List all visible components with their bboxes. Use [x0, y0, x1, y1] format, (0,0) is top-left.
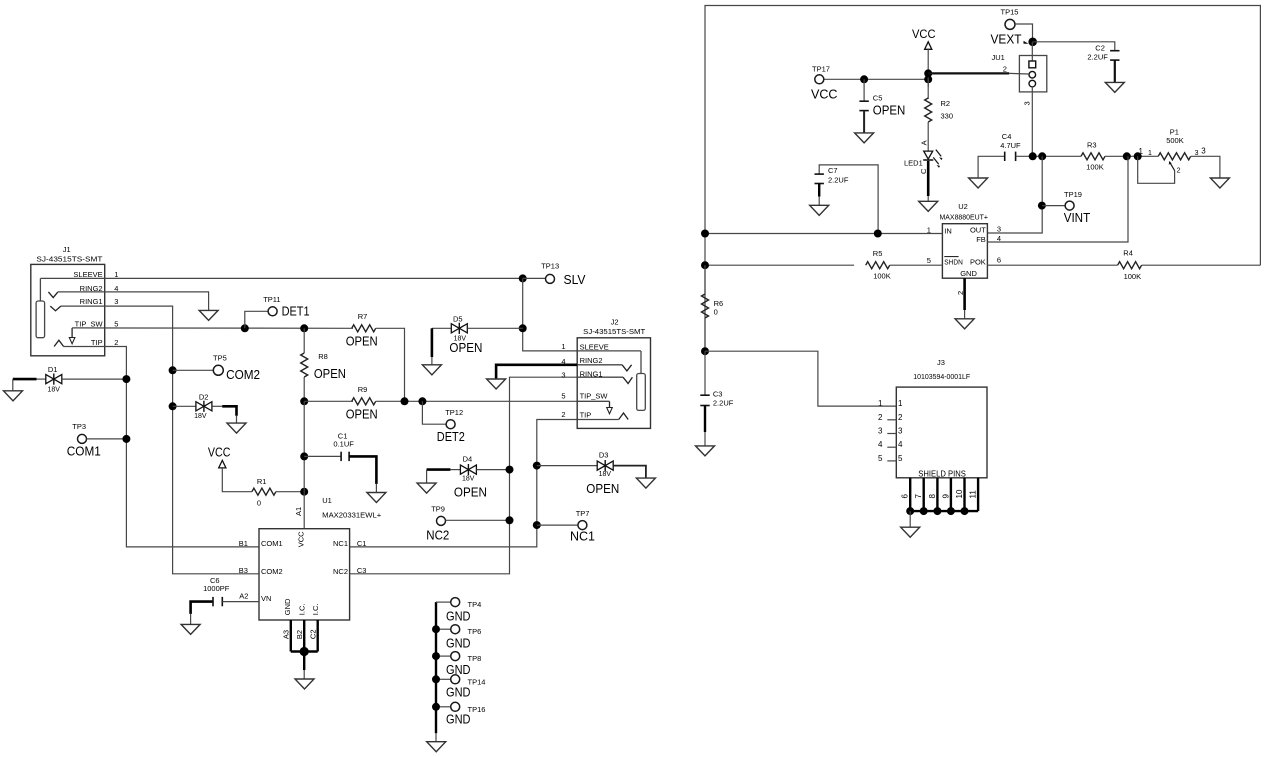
test point TP3 [67, 422, 101, 458]
svg-text:A1: A1 [294, 507, 303, 516]
ground below C7 [810, 205, 829, 215]
ground below D1 [4, 391, 23, 401]
ground below D5 left [422, 365, 441, 375]
junction D4 node [506, 466, 514, 474]
svg-text:VEXT: VEXT [991, 32, 1022, 47]
capacitor C2 [1087, 44, 1119, 62]
svg-text:I.C.: I.C. [311, 604, 320, 616]
wire JU1 pin3 down to C4 node [1031, 87, 1033, 156]
wire D5 to SLV node [467, 327, 522, 329]
wire C1 ground elbow [349, 456, 376, 484]
wire D5 ground drop [431, 328, 434, 357]
wire J2 RING2 to ground [496, 365, 577, 379]
junction JU1 pin3 node [1029, 152, 1037, 160]
wire J1 TIP_SW net [72, 327, 353, 329]
junction shield bus at 937.4 [933, 507, 941, 515]
junction TP7 node [533, 521, 541, 529]
diode D5 [449, 315, 482, 356]
J1 pin names [73, 270, 103, 347]
wire TP5 stub [173, 369, 214, 371]
U1 bottom pin stubs [281, 620, 317, 652]
wire R6 to C3 node [704, 318, 706, 351]
capacitor C6 [203, 576, 230, 606]
resistor R7 [346, 312, 378, 349]
wire D1 ground drop [12, 379, 14, 391]
svg-text:U1: U1 [322, 496, 332, 505]
wire C3 lower stub [704, 406, 706, 432]
test point TP4 GND [436, 598, 481, 624]
junction shield bus at 950.9 [947, 507, 955, 515]
junction R1 node [300, 488, 308, 496]
svg-text:J3: J3 [937, 358, 945, 367]
svg-text:TP13: TP13 [541, 262, 559, 271]
ground below D3 [636, 478, 655, 488]
wire IN pin1 net [705, 233, 942, 235]
svg-text:2.2UF: 2.2UF [828, 175, 849, 184]
wire R1 to VCC column [276, 491, 304, 493]
svg-text:C: C [919, 168, 928, 174]
svg-text:OPEN: OPEN [314, 367, 346, 381]
wire TP15 to VEXT node [1015, 24, 1032, 42]
svg-text:NC1: NC1 [333, 539, 348, 548]
wire U1 bottom bus [291, 650, 318, 652]
svg-text:OUT: OUT [970, 226, 986, 235]
svg-text:5: 5 [561, 392, 565, 401]
resistor R5 [866, 249, 891, 281]
svg-text:500K: 500K [1166, 136, 1184, 145]
svg-text:3: 3 [1201, 147, 1206, 156]
wire D2 left stub [173, 405, 196, 407]
junction VCC/JU1 pin2 wire [924, 69, 932, 77]
junction OUT riser node [1038, 152, 1046, 160]
J3 pin numbers 1-5 [878, 399, 903, 463]
svg-text:DET1: DET1 [282, 304, 310, 318]
junction VCC column at TP17 wire [924, 75, 932, 83]
op-amp U1 MAX20331EWL+ box [259, 496, 382, 620]
svg-text:C5: C5 [873, 94, 883, 103]
svg-text:2.2UF: 2.2UF [713, 399, 734, 408]
svg-text:TP19: TP19 [1064, 190, 1082, 199]
svg-text:VCC: VCC [297, 531, 306, 547]
svg-text:GND: GND [446, 609, 471, 624]
svg-text:2: 2 [114, 338, 118, 347]
svg-text:0: 0 [714, 308, 718, 317]
svg-text:J1: J1 [63, 245, 71, 254]
ground below U2 [955, 319, 974, 329]
wire R8 node to R9 [304, 400, 353, 402]
svg-text:1000PF: 1000PF [203, 584, 230, 593]
svg-text:D2: D2 [199, 392, 209, 401]
resistor R3 [1081, 140, 1105, 171]
J2 jack internals [577, 351, 645, 420]
wire C6 left elbow [191, 602, 213, 614]
capacitor C1 [333, 432, 354, 461]
power symbol VCC (left) [208, 446, 231, 468]
svg-text:B2: B2 [295, 630, 304, 639]
diode D2 [194, 392, 212, 420]
wire R6 top stub [704, 265, 706, 294]
svg-text:0: 0 [257, 499, 261, 508]
svg-text:DET2: DET2 [437, 430, 465, 444]
wire C5 upper stub [863, 79, 865, 101]
wire NC2 net [350, 377, 578, 574]
svg-text:SJ-43515TS-SMT: SJ-43515TS-SMT [583, 327, 645, 336]
wire C1 ground tail [375, 484, 377, 493]
ground J2 RING2 [487, 379, 506, 389]
ground below U1 [295, 679, 314, 689]
ground below D4 [417, 483, 436, 493]
resistor R4 [1118, 248, 1142, 280]
svg-text:A2: A2 [239, 592, 248, 601]
svg-text:4: 4 [898, 440, 903, 449]
svg-text:R3: R3 [1087, 140, 1097, 149]
wire VCC arrow to R2 [927, 49, 929, 87]
svg-text:VINT: VINT [1064, 211, 1091, 225]
wire R7 to right riser [376, 328, 405, 401]
test point TP7 [570, 509, 595, 543]
junction C1 node [300, 452, 308, 460]
junction TP19 node [1038, 202, 1046, 210]
svg-text:TIP_SW: TIP_SW [580, 392, 609, 401]
capacitor C3 [700, 389, 733, 407]
potentiometer P1 [1139, 128, 1207, 175]
ground below C3 [696, 446, 715, 456]
pin label A1 [294, 507, 303, 516]
svg-text:TP5: TP5 [213, 353, 227, 362]
svg-text:SHIELD PINS: SHIELD PINS [918, 469, 966, 478]
test point TP5 [213, 353, 260, 382]
capacitor C4 [1000, 132, 1021, 161]
ground below C5 [855, 133, 874, 143]
svg-text:TIP: TIP [91, 338, 103, 347]
junction GND bus at TP6 [432, 625, 440, 633]
wire TP19 stub [1042, 205, 1065, 207]
svg-text:10103594-0001LF: 10103594-0001LF [913, 372, 970, 381]
svg-text:GND: GND [446, 662, 471, 677]
svg-text:TP7: TP7 [576, 509, 590, 518]
U2 pin numbers [927, 225, 1001, 295]
wire C4 ground elbow [978, 156, 1005, 178]
svg-text:18V: 18V [194, 413, 207, 420]
wire D5 ground tail [431, 357, 433, 365]
junction SLV node [519, 274, 527, 282]
ground below C6 [181, 624, 200, 634]
junction shield bus at 964.5 [961, 507, 969, 515]
svg-text:2: 2 [878, 413, 883, 422]
svg-text:NC2: NC2 [426, 529, 449, 543]
ground J1 RING2 [199, 310, 218, 320]
svg-text:OPEN: OPEN [586, 482, 619, 496]
junction DET1/TP11 [241, 324, 249, 332]
svg-text:4.7UF: 4.7UF [1000, 141, 1021, 150]
wire C3 ground tail [704, 432, 706, 446]
svg-text:TP3: TP3 [72, 422, 86, 431]
resistor R8 [301, 352, 346, 381]
LED LED1 [904, 140, 943, 174]
wire TP3 to TIP column [87, 438, 127, 440]
svg-text:5: 5 [878, 454, 883, 463]
svg-text:GND: GND [446, 685, 471, 700]
svg-text:GND: GND [283, 598, 292, 615]
junction D3 node [533, 462, 541, 470]
wire U1 bus to ground [303, 652, 305, 671]
svg-text:3: 3 [1023, 101, 1032, 105]
svg-text:VCC: VCC [811, 88, 838, 102]
svg-text:6: 6 [997, 255, 1001, 264]
junction D2 node [169, 402, 177, 410]
wire R8 top stub [303, 328, 305, 353]
J1 jack internals [36, 278, 75, 346]
svg-text:R1: R1 [257, 477, 267, 486]
connector J2 box [577, 318, 650, 429]
svg-text:TP9: TP9 [431, 504, 445, 513]
wire NC1 net [350, 420, 578, 547]
capacitor C7 [815, 166, 849, 184]
resistor R2 [925, 98, 953, 122]
wire D2 right elbow thin [212, 405, 222, 407]
svg-text:COM2: COM2 [226, 368, 260, 382]
junction TP12 node [418, 397, 426, 405]
ground below C1 [367, 493, 386, 503]
wire R9 to J2 TIP_SW [376, 400, 578, 402]
wire D1 to TIP column [62, 378, 127, 380]
ground right of P1 [1210, 178, 1229, 188]
svg-text:0.1UF: 0.1UF [333, 440, 354, 449]
ground below D2 [227, 423, 246, 433]
wire R2 to LED1 anode [927, 122, 929, 151]
svg-text:3: 3 [561, 370, 565, 379]
svg-text:OPEN: OPEN [346, 407, 378, 421]
svg-text:OPEN: OPEN [454, 485, 487, 499]
junction IN net at border [701, 230, 709, 238]
svg-text:TIP_SW: TIP_SW [75, 320, 104, 329]
wire U1 ground tail [303, 670, 305, 679]
svg-text:3: 3 [898, 427, 903, 436]
svg-text:POK: POK [970, 257, 986, 266]
wire C2 to ground [1114, 60, 1116, 82]
junction TP3 node [122, 435, 130, 443]
junction GND bus at TP8 [432, 652, 440, 660]
ground below GND test points [427, 742, 446, 752]
wire JU1 pin2 to VCC node [928, 72, 1009, 74]
svg-text:330: 330 [941, 112, 954, 121]
svg-text:TP11: TP11 [263, 295, 280, 304]
ground left of C4 [969, 178, 988, 188]
svg-text:R8: R8 [318, 352, 328, 361]
wire VCC node to R2 top [927, 79, 929, 99]
test point TP16 GND [436, 702, 485, 726]
resistor R1 [252, 477, 276, 508]
svg-text:TP17: TP17 [812, 64, 830, 73]
svg-text:C2: C2 [308, 630, 317, 640]
J2 pin names [580, 342, 609, 419]
wire GND TP bus [435, 602, 437, 733]
svg-text:R2: R2 [941, 99, 951, 108]
wire J1 TIP down column [64, 347, 259, 547]
svg-text:B1: B1 [239, 539, 248, 548]
wire C6 ground tail [190, 614, 192, 625]
svg-text:10: 10 [955, 489, 964, 498]
svg-text:NC2: NC2 [333, 567, 348, 576]
svg-text:R4: R4 [1123, 248, 1133, 257]
svg-text:1: 1 [114, 270, 118, 279]
wire D1 left stub [37, 378, 46, 380]
junction FB riser node [1123, 152, 1131, 160]
svg-text:U2: U2 [958, 202, 968, 211]
svg-text:SLEEVE: SLEEVE [580, 342, 609, 351]
connector J1 box [31, 245, 105, 356]
svg-text:R7: R7 [358, 312, 368, 321]
svg-text:RING1: RING1 [80, 297, 103, 306]
wire P1 wiper to pin1 net [1138, 156, 1175, 183]
wire J1 RING1 down left column [61, 306, 259, 574]
svg-text:C3: C3 [713, 389, 723, 398]
svg-text:SHDN: SHDN [944, 257, 963, 266]
wire C5 lower stub [863, 111, 865, 133]
svg-text:R5: R5 [873, 249, 883, 258]
wire VCC to R1 [222, 468, 252, 492]
junction GND bus at TP16 [432, 703, 440, 711]
diode D4 [454, 455, 487, 500]
diode D3 [586, 451, 619, 496]
svg-text:RING2: RING2 [580, 356, 603, 365]
svg-text:2.2UF: 2.2UF [1087, 52, 1108, 61]
svg-text:GND: GND [960, 269, 977, 278]
svg-text:TP15: TP15 [1001, 8, 1019, 17]
svg-text:SLV: SLV [564, 273, 587, 287]
wire D5 left elbow [432, 327, 451, 329]
wire D3 left stub [537, 465, 598, 467]
net label VEXT [991, 32, 1029, 47]
svg-text:FB: FB [976, 235, 986, 244]
diode D1 [46, 365, 62, 394]
J2 pin numbers [561, 342, 565, 419]
svg-text:18V: 18V [599, 471, 612, 478]
junction VEXT node [1028, 38, 1037, 47]
wire VEXT to JU1 pin1 [1031, 42, 1033, 61]
svg-text:J2: J2 [611, 318, 619, 327]
svg-text:COM2: COM2 [261, 567, 283, 576]
svg-text:JU1: JU1 [992, 53, 1005, 62]
junction TP17/C5 node [860, 75, 868, 83]
svg-text:SLEEVE: SLEEVE [73, 270, 102, 279]
wire R8 bottom stub [303, 377, 305, 401]
svg-text:B3: B3 [239, 566, 248, 575]
wire D1 ground elbow [13, 378, 37, 381]
svg-text:18V: 18V [462, 476, 475, 483]
wire TP9 stub [446, 519, 510, 521]
junction SHDN net at border [701, 261, 709, 269]
jumper JU1 [992, 53, 1047, 106]
wire C6 to VN pin [222, 601, 259, 603]
svg-text:3: 3 [114, 297, 118, 306]
svg-text:GND: GND [446, 712, 471, 727]
svg-text:VCC: VCC [912, 29, 936, 41]
test point TP6 GND [436, 625, 481, 651]
test point TP13 [541, 262, 586, 287]
wire C7 top to IN node [819, 165, 878, 234]
resistor R6 [702, 294, 724, 318]
svg-text:6: 6 [901, 494, 910, 499]
wire D2 ground tail [236, 416, 238, 423]
J3 shield pin stubs 6-11 [901, 478, 978, 511]
svg-text:7: 7 [914, 494, 923, 499]
svg-text:1: 1 [878, 399, 883, 408]
svg-text:2: 2 [1003, 64, 1007, 73]
wire OUT riser [987, 156, 1042, 233]
svg-text:OPEN: OPEN [346, 335, 378, 349]
junction R8 top node [300, 324, 308, 332]
svg-text:100K: 100K [873, 272, 891, 281]
svg-text:1: 1 [561, 342, 565, 351]
svg-text:1: 1 [898, 399, 903, 408]
svg-text:COM1: COM1 [261, 539, 283, 548]
wire VEXT net loop (left/top/right border) [705, 6, 1260, 352]
wire D3 ground elbow [613, 466, 646, 479]
svg-text:GND: GND [446, 635, 471, 650]
wire U2 GND tail [964, 310, 966, 319]
test point TP15 [1001, 8, 1019, 30]
junction shield bus at 910.2 [906, 507, 914, 515]
wire C7 ground tail [818, 197, 820, 206]
wire D4 left stub [450, 469, 460, 471]
ground below J3 [901, 527, 920, 537]
wire VEXT to C2 [1033, 42, 1115, 51]
svg-text:1: 1 [1148, 150, 1152, 157]
svg-text:5: 5 [114, 320, 118, 329]
svg-text:4: 4 [878, 440, 883, 449]
svg-text:LED1: LED1 [904, 159, 923, 168]
junction R6/C3/J3 node [701, 347, 709, 355]
svg-text:R9: R9 [358, 385, 368, 394]
wire D4 to NC2 riser [476, 469, 509, 471]
junction P1 wiper return node [1134, 152, 1142, 160]
svg-text:9: 9 [941, 494, 950, 499]
junction R8 bottom node [300, 397, 308, 405]
svg-text:1: 1 [1139, 147, 1144, 156]
wire J3 shield bus [910, 510, 978, 512]
test point TP12 [437, 408, 465, 444]
J3 left pin stubs 2-5 [887, 420, 896, 461]
svg-text:5: 5 [927, 256, 931, 265]
junction U1 ground bus [300, 647, 309, 656]
svg-text:MAX8880EUT+: MAX8880EUT+ [940, 213, 989, 222]
wire FB pin4 net [987, 156, 1128, 242]
wire D4 ground elbow [427, 468, 451, 471]
svg-text:2: 2 [1177, 168, 1181, 175]
svg-text:C4: C4 [1002, 132, 1012, 141]
svg-text:OPEN: OPEN [873, 104, 906, 118]
svg-text:SJ-43515TS-SMT: SJ-43515TS-SMT [36, 255, 102, 264]
svg-text:D3: D3 [599, 451, 609, 460]
wire U2 GND stub [963, 278, 966, 310]
junction shield bus at 923.7 [920, 507, 928, 515]
svg-text:100K: 100K [1124, 272, 1142, 281]
svg-text:100K: 100K [1086, 163, 1104, 172]
wire J1 SLEEVE to SLV node [40, 277, 522, 279]
wire P1 pin3 to ground [1191, 156, 1220, 178]
svg-text:D1: D1 [48, 365, 58, 374]
wire J1 RING2 to ground [58, 292, 209, 311]
svg-text:8: 8 [928, 494, 937, 499]
op-amp U2 MAX8880EUT+ box [940, 202, 989, 278]
test point TP8 GND [436, 652, 481, 677]
wire JU1 pin2 stub [1009, 72, 1029, 75]
wire R5 to SHDN pin [890, 264, 943, 266]
wire SLV node to TP13 [523, 277, 546, 279]
wire SLV vertical to J2 SLEEVE [523, 278, 578, 351]
svg-text:18V: 18V [48, 387, 61, 394]
